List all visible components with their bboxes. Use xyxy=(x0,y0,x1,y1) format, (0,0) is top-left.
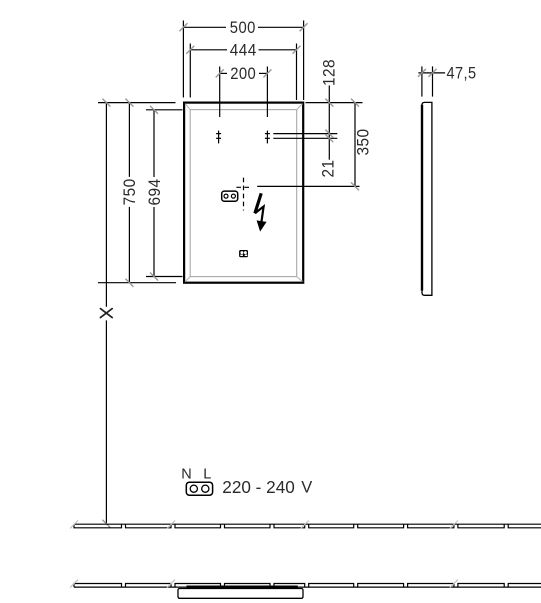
left extension line top inner xyxy=(146,109,183,111)
dimension 200 ticks xyxy=(216,69,272,77)
svg-text:21: 21 xyxy=(319,160,338,178)
dimension 500 line xyxy=(183,26,303,28)
svg-text:750: 750 xyxy=(120,178,139,205)
dimension 750 ticks xyxy=(125,99,133,287)
lightning bolt xyxy=(255,193,266,230)
svg-text:N: N xyxy=(181,467,191,483)
dimension 444 line xyxy=(190,49,296,51)
dimension 200 line xyxy=(220,72,268,74)
dashed position cross xyxy=(236,178,250,211)
left extension line bottom outer xyxy=(98,282,176,284)
mirror panel bevel corner diagonals xyxy=(185,104,302,282)
right extension line from panel top xyxy=(306,102,363,104)
lower tile band xyxy=(74,584,541,588)
dimension X line xyxy=(105,103,107,524)
left extension line bottom inner xyxy=(146,276,183,278)
svg-text:500: 500 xyxy=(230,18,256,37)
svg-text:L: L xyxy=(203,467,211,483)
left extension line top outer xyxy=(98,102,176,104)
socket symbol on panel xyxy=(222,191,238,201)
upper tile band xyxy=(74,524,541,528)
dimension X text xyxy=(100,309,112,318)
socket height extension line xyxy=(257,185,359,187)
dimension 128/21 line xyxy=(328,86,330,160)
dimension 500 extension lines xyxy=(183,21,303,101)
dimension 128/21 ticks xyxy=(325,99,333,143)
dimension 694 line xyxy=(153,110,155,277)
lower tile band joint ticks xyxy=(70,580,458,588)
hanger level lines to right dimension xyxy=(273,134,337,139)
mirror panel inner bevel line xyxy=(190,110,297,277)
mirror panel outer frame xyxy=(184,103,303,283)
svg-text:V: V xyxy=(301,479,312,497)
upper tile band joint ticks xyxy=(70,521,458,529)
plan view light bar xyxy=(187,586,298,589)
svg-text:200: 200 xyxy=(230,64,256,83)
dimension 47,5 extension lines xyxy=(422,66,433,96)
side view profile xyxy=(422,102,432,295)
left hanger mark xyxy=(216,131,221,144)
right hanger mark xyxy=(265,131,270,144)
svg-text:220 - 240: 220 - 240 xyxy=(222,477,295,497)
svg-text:350: 350 xyxy=(353,129,372,156)
dimension 47,5 line xyxy=(418,72,445,74)
svg-text:47,5: 47,5 xyxy=(447,64,477,83)
dimension 350 line xyxy=(354,103,356,187)
dimension 47,5 ticks xyxy=(418,69,437,77)
plan view mirror body xyxy=(178,589,303,599)
svg-text:128: 128 xyxy=(320,59,339,86)
dimension 444 extension lines xyxy=(190,44,296,101)
mains socket box xyxy=(186,482,212,495)
dimension 200 extension lines xyxy=(220,67,268,118)
dimension X ticks xyxy=(102,99,110,528)
svg-text:444: 444 xyxy=(230,41,257,60)
tiny connector icon at panel bottom xyxy=(239,250,248,257)
dimension 750 line xyxy=(128,103,130,283)
dimension 350 ticks xyxy=(351,99,359,191)
dimension 500 ticks xyxy=(179,23,307,31)
dimension 444 ticks xyxy=(186,46,300,54)
dimension 694 ticks xyxy=(150,106,158,281)
svg-text:694: 694 xyxy=(145,179,164,206)
